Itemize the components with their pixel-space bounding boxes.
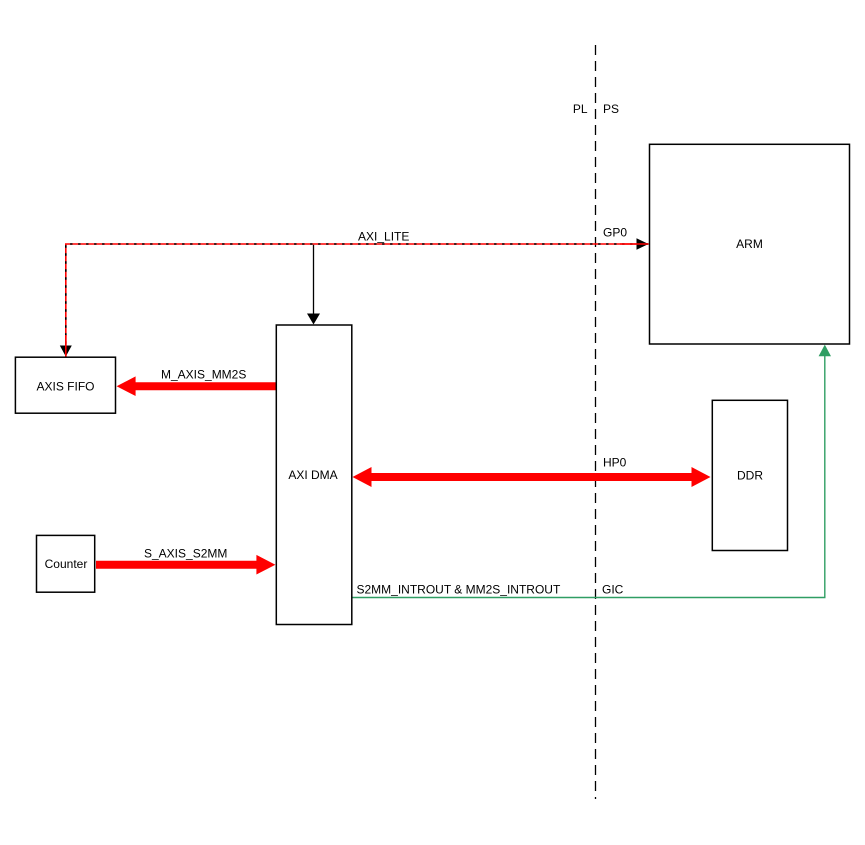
block AXI DMA [276, 325, 352, 625]
green arrowhead into ARM bottom [819, 345, 831, 357]
svg-text:S_AXIS_S2MM: S_AXIS_S2MM [144, 547, 227, 561]
arrowhead into ARM GP0 [620, 238, 649, 250]
svg-text:PS: PS [603, 102, 619, 116]
label GIC [602, 583, 624, 597]
block AXIS FIFO [15, 357, 115, 413]
label S2MM_INTROUT & MM2S_INTROUT [357, 583, 561, 597]
red arrow M_AXIS_MM2S (AXI DMA to AXIS FIFO) [117, 376, 276, 396]
svg-text:AXI DMA: AXI DMA [288, 468, 337, 482]
svg-text:HP0: HP0 [603, 456, 627, 470]
wire green interrupt line S2MM_INTROUT & MM2S_INTROUT to ARM GIC [353, 356, 825, 598]
label PS [603, 102, 619, 116]
svg-text:GIC: GIC [602, 583, 624, 597]
block Counter [37, 535, 95, 592]
label HP0 [603, 456, 627, 470]
svg-text:DDR: DDR [737, 469, 763, 483]
svg-text:AXI_LITE: AXI_LITE [358, 230, 409, 244]
svg-text:ARM: ARM [736, 237, 763, 251]
wire AXI_LITE red line (horizontal to ARM GP0 and down to AXIS FIFO) [66, 244, 649, 357]
label M_AXIS_MM2S [161, 368, 246, 382]
svg-text:S2MM_INTROUT & MM2S_INTROUT: S2MM_INTROUT & MM2S_INTROUT [357, 583, 561, 597]
svg-text:Counter: Counter [45, 557, 88, 571]
svg-text:PL: PL [573, 102, 588, 116]
label S_AXIS_S2MM [144, 547, 227, 561]
label GP0 [603, 226, 627, 240]
red double arrow HP0 (AXI DMA to DDR) [353, 467, 711, 487]
block ARM [650, 144, 850, 344]
svg-text:GP0: GP0 [603, 226, 627, 240]
PL/PS boundary dashed divider [595, 45, 597, 799]
arrowhead into AXI DMA top [307, 314, 320, 325]
block DDR [712, 400, 787, 550]
red arrow S_AXIS_S2MM (Counter to AXI DMA) [96, 555, 275, 575]
arrowhead into AXIS FIFO top [60, 335, 72, 357]
svg-text:AXIS FIFO: AXIS FIFO [36, 380, 94, 394]
label AXI_LITE [358, 230, 409, 244]
wire black branch from AXI_LITE down to AXI DMA [313, 245, 315, 315]
svg-text:M_AXIS_MM2S: M_AXIS_MM2S [161, 368, 246, 382]
label PL [573, 102, 588, 116]
